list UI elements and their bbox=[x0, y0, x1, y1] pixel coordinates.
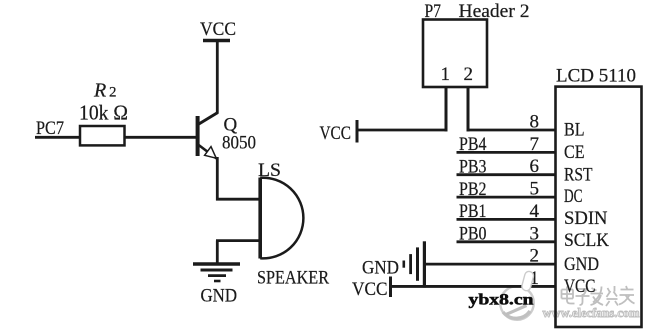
svg-text:RST: RST bbox=[564, 164, 593, 185]
svg-text:VCC: VCC bbox=[200, 19, 236, 40]
svg-text:GND: GND bbox=[564, 254, 599, 275]
svg-text:VCC: VCC bbox=[320, 123, 352, 144]
svg-text:4: 4 bbox=[530, 201, 540, 222]
svg-text:PC7: PC7 bbox=[36, 118, 64, 139]
wire P7 pin 2 to LCD BL pin 8 bbox=[467, 129, 557, 132]
svg-text:8050: 8050 bbox=[222, 133, 256, 154]
svg-text:2: 2 bbox=[530, 246, 540, 267]
wire PB3 to LCD RST pin 6 bbox=[457, 173, 557, 176]
connector P7 pin 2 stub bbox=[467, 87, 470, 131]
resistor R2 body bbox=[80, 126, 125, 145]
svg-text:6: 6 bbox=[530, 156, 540, 177]
watermark magnifier lens bbox=[500, 286, 534, 320]
wire VCC to P7 pin 1 bbox=[357, 129, 448, 132]
svg-text:LCD 5110: LCD 5110 bbox=[556, 66, 636, 87]
svg-text:LS: LS bbox=[258, 160, 281, 181]
wire Q emitter down bbox=[216, 157, 219, 201]
svg-text:3: 3 bbox=[530, 223, 540, 244]
connector P7 pin 1 stub bbox=[445, 87, 448, 131]
LCD module U1 body bbox=[556, 87, 642, 327]
svg-text:2: 2 bbox=[464, 64, 474, 85]
wire R2 to Q base bbox=[125, 136, 197, 139]
wire PC7 to R2 bbox=[35, 136, 81, 139]
svg-text:BL: BL bbox=[564, 120, 585, 141]
wire speaker to ground bbox=[216, 241, 219, 263]
ground symbol right (sideways) bbox=[404, 241, 425, 287]
svg-text:7: 7 bbox=[530, 134, 540, 155]
speaker LS symbol bbox=[260, 178, 303, 259]
wire PB0 to LCD SCLK pin 3 bbox=[457, 240, 557, 243]
connector P7 body bbox=[423, 20, 487, 88]
svg-text:VCC: VCC bbox=[352, 279, 388, 300]
watermark magnifier handle bbox=[521, 270, 535, 291]
svg-text:R: R bbox=[93, 80, 106, 102]
wire PB1 to LCD SDIN pin 4 bbox=[457, 218, 557, 221]
transistor Q1 8050 bbox=[196, 113, 218, 159]
svg-text:2: 2 bbox=[109, 85, 117, 101]
svg-text:SCLK: SCLK bbox=[564, 230, 609, 251]
wire emitter to speaker plus terminal bbox=[216, 198, 260, 201]
svg-text:10k Ω: 10k Ω bbox=[79, 101, 128, 125]
svg-text:SDIN: SDIN bbox=[564, 208, 608, 229]
wire PB4 to LCD CE pin 7 bbox=[457, 151, 557, 154]
svg-text:1: 1 bbox=[441, 64, 451, 85]
svg-text:VCC: VCC bbox=[564, 276, 596, 297]
power VCC bottom terminal bar bbox=[389, 277, 392, 298]
svg-text:CE: CE bbox=[564, 142, 585, 163]
power VCC mid terminal bar bbox=[356, 120, 359, 143]
wire PB2 to LCD DC pin 5 bbox=[457, 196, 557, 199]
svg-text:DC: DC bbox=[564, 186, 583, 207]
wire VCC to Q collector bbox=[216, 41, 219, 114]
wire VCC to LCD VCC pin 1 bbox=[391, 285, 557, 288]
wire GND to LCD GND pin 2 bbox=[424, 263, 556, 266]
wire speaker minus terminal bbox=[216, 239, 260, 242]
svg-text:5: 5 bbox=[530, 179, 540, 200]
power VCC top terminal bar bbox=[203, 39, 230, 43]
svg-text:SPEAKER: SPEAKER bbox=[257, 268, 329, 289]
svg-text:GND: GND bbox=[362, 257, 399, 278]
svg-text:8: 8 bbox=[530, 112, 540, 133]
svg-text:GND: GND bbox=[201, 285, 238, 306]
svg-text:www.elecfans.com: www.elecfans.com bbox=[543, 306, 641, 320]
svg-text:ybx8.cn: ybx8.cn bbox=[469, 291, 534, 308]
ground symbol left bbox=[193, 264, 240, 281]
watermark chinese text 电子发烧友 bbox=[562, 286, 635, 306]
